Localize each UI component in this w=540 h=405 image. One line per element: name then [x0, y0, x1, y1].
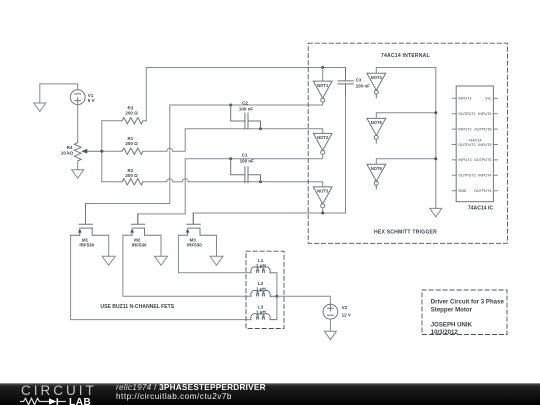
note box text: [431, 299, 505, 336]
transistor M3: [178, 213, 216, 235]
wire R1 to NOT2 input: [173, 129, 323, 152]
svg-text:R1: R1: [128, 136, 134, 141]
svg-text:1 μH: 1 μH: [256, 310, 266, 315]
junction dot bus-wiper: [100, 150, 103, 153]
inverter NOT6: [367, 164, 386, 189]
svg-text:NOT4: NOT4: [371, 75, 383, 80]
svg-text:Vcc: Vcc: [485, 97, 491, 101]
wire NOT3 output: [193, 208, 345, 224]
svg-text:100 nF: 100 nF: [356, 83, 371, 88]
svg-text:100 nF: 100 nF: [239, 106, 254, 111]
svg-text:NOT5: NOT5: [371, 120, 383, 125]
inverter NOT4: [367, 73, 386, 98]
wire inductor tie: [276, 273, 278, 320]
ground (top-left): [34, 103, 46, 112]
node bus left: [101, 121, 103, 182]
svg-text:USE BUZ11 N-CHANNEL FETS: USE BUZ11 N-CHANNEL FETS: [100, 304, 174, 310]
svg-text:10/3/2012: 10/3/2012: [431, 329, 459, 336]
wire NOT5 input: [376, 113, 436, 119]
capacitor C3: [338, 68, 354, 97]
junction dot NOT3 output: [321, 212, 324, 215]
wire unused-input bus: [435, 68, 437, 209]
dashed box 74AC14 internal: [308, 43, 507, 243]
junction dot bus NOT5: [434, 111, 437, 114]
svg-text:200 Ω: 200 Ω: [125, 111, 138, 116]
inductor L3: [251, 314, 277, 320]
wire M3 drain to L1: [178, 235, 251, 272]
svg-text:V2: V2: [342, 305, 348, 310]
ground (M3): [210, 256, 223, 265]
svg-text:10 kΩ: 10 kΩ: [61, 151, 74, 156]
wire R2 mid: [173, 181, 182, 183]
svg-text:Driver Circuit for 3 Phase: Driver Circuit for 3 Phase: [431, 299, 505, 306]
svg-text:74AC14 IC: 74AC14 IC: [468, 206, 494, 212]
junction dot C2 bottom: [259, 127, 262, 130]
svg-text:1 μH: 1 μH: [256, 287, 266, 292]
footer bar: [0, 383, 540, 405]
svg-text:5 V: 5 V: [88, 98, 95, 103]
IC body 74AC14: [456, 86, 493, 202]
svg-text:L1: L1: [258, 258, 264, 263]
inverter NOT5: [367, 118, 386, 143]
resistor R1: [122, 148, 167, 154]
transistor M2: [123, 214, 161, 235]
svg-text:200 Ω: 200 Ω: [125, 141, 138, 146]
svg-text:V1: V1: [88, 93, 94, 98]
svg-text:C2: C2: [242, 100, 248, 105]
svg-text:INPUT4: INPUT4: [478, 174, 491, 178]
svg-text:R4: R4: [67, 145, 73, 150]
svg-text:OUTPUT6: OUTPUT6: [474, 127, 491, 131]
capacitor C1: [231, 159, 261, 183]
ground (74AC14 bus): [430, 208, 442, 217]
capacitor C2: [231, 105, 261, 129]
junction dot NOT1 input: [321, 66, 324, 69]
logo zigzag + diode: [20, 397, 68, 405]
wire hop R2 over M2 feed: [182, 179, 188, 182]
inductor L1: [251, 267, 277, 273]
wire pot to ground: [77, 161, 79, 170]
svg-text:L2: L2: [258, 281, 264, 286]
svg-text:R3: R3: [128, 105, 134, 110]
inductor L2: [251, 290, 277, 296]
resistor R2: [102, 179, 167, 185]
svg-text:INPUT6: INPUT6: [478, 112, 491, 116]
footer url: [116, 392, 232, 401]
svg-text:74AC14: 74AC14: [468, 138, 481, 142]
wire V1 top to ground: [40, 84, 78, 103]
svg-text:74AC14 INTERNAL: 74AC14 INTERNAL: [381, 53, 430, 59]
ground (M2): [155, 256, 168, 265]
wire NOT1 output to M1 gate: [86, 102, 323, 224]
svg-text:R2: R2: [128, 168, 134, 173]
wire C3 to NOT3 output: [345, 96, 347, 213]
svg-text:IRF530: IRF530: [79, 242, 94, 247]
svg-text:INPUT3: INPUT3: [458, 158, 471, 162]
footer title: [116, 383, 266, 392]
wire M3 source to ground: [216, 235, 218, 256]
junction dot bus NOT6: [434, 157, 437, 160]
wire V1 to potentiometer: [77, 105, 79, 143]
junction dot C1 top: [229, 157, 232, 160]
svg-text:OUTPUT5: OUTPUT5: [474, 158, 491, 162]
svg-text:INPUT2: INPUT2: [458, 127, 471, 131]
svg-text:OUTPUT4: OUTPUT4: [474, 189, 491, 193]
wire L2 to V2: [277, 296, 331, 304]
svg-text:NOT2: NOT2: [317, 135, 329, 140]
svg-text:1 μH: 1 μH: [256, 263, 266, 268]
svg-text:INPUT1: INPUT1: [458, 97, 471, 101]
svg-text:200 Ω: 200 Ω: [125, 173, 138, 178]
junction dot C2 top: [229, 104, 232, 107]
dashed box note: [422, 290, 507, 335]
voltage source V2: [323, 304, 338, 319]
svg-text:IRF530: IRF530: [132, 242, 147, 247]
svg-text:NOT1: NOT1: [317, 83, 329, 88]
transistor M1: [71, 204, 109, 236]
svg-text:100 nF: 100 nF: [240, 158, 255, 163]
wire hop R1 over M1 feed: [167, 148, 173, 151]
svg-text:JOSEPH UNIK: JOSEPH UNIK: [431, 321, 473, 328]
wire hop R2 over M1 feed: [167, 179, 173, 182]
wire M2 drain to L2: [123, 235, 251, 296]
svg-text:OUTPUT1: OUTPUT1: [458, 112, 475, 116]
svg-text:12 V: 12 V: [342, 312, 351, 317]
ground (under pot): [72, 170, 84, 179]
svg-text:C1: C1: [242, 152, 248, 157]
inverter NOT3: [313, 187, 332, 208]
inverter NOT2: [313, 133, 332, 154]
junction dot C1 bottom: [259, 180, 262, 183]
wire R2 to NOT3 input: [188, 182, 323, 187]
logo LAB: [69, 397, 91, 405]
svg-text:L3: L3: [258, 304, 264, 309]
junction dot L2-V2: [275, 295, 278, 298]
svg-text:C3: C3: [356, 77, 362, 82]
logo CIRCUIT: [21, 383, 97, 398]
svg-text:HEX SCHMITT TRIGGER: HEX SCHMITT TRIGGER: [374, 229, 437, 235]
wire M1 drain to L3: [71, 235, 251, 319]
IC pin labels: [458, 97, 491, 193]
svg-text:NOT3: NOT3: [317, 189, 329, 194]
wire V2 to ground: [329, 319, 331, 331]
svg-text:IRF530: IRF530: [187, 242, 202, 247]
wire NOT2 output to M2 gate: [138, 154, 323, 224]
svg-text:OUTPUT2: OUTPUT2: [458, 143, 475, 147]
svg-text:NOT6: NOT6: [371, 166, 383, 171]
potentiometer R4: [74, 143, 81, 161]
R4 wiper arrow: [87, 150, 102, 152]
svg-text:OUTPUT3: OUTPUT3: [458, 174, 475, 178]
wire NOT1 input stub: [322, 68, 324, 82]
wire wiper to R1: [102, 150, 122, 152]
dashed box inductors: [246, 251, 284, 328]
wire R3 to NOT1 input: [146, 68, 345, 121]
wire M1 source to ground: [108, 235, 110, 256]
inverter NOT1: [313, 81, 332, 102]
voltage source V1: [70, 90, 85, 105]
svg-text:GND: GND: [458, 189, 467, 193]
wire NOT4 input: [376, 68, 436, 74]
IC pin stubs right: [493, 98, 497, 190]
wire M2 source to ground: [160, 235, 162, 256]
resistor R3: [102, 118, 147, 124]
wire NOT6 input: [376, 159, 436, 165]
svg-text:INPUT5: INPUT5: [478, 143, 491, 147]
ground (M1): [102, 256, 115, 265]
ground (V2): [324, 331, 336, 340]
svg-text:Stepper Motor: Stepper Motor: [431, 307, 473, 314]
IC pin stubs left: [452, 98, 456, 190]
